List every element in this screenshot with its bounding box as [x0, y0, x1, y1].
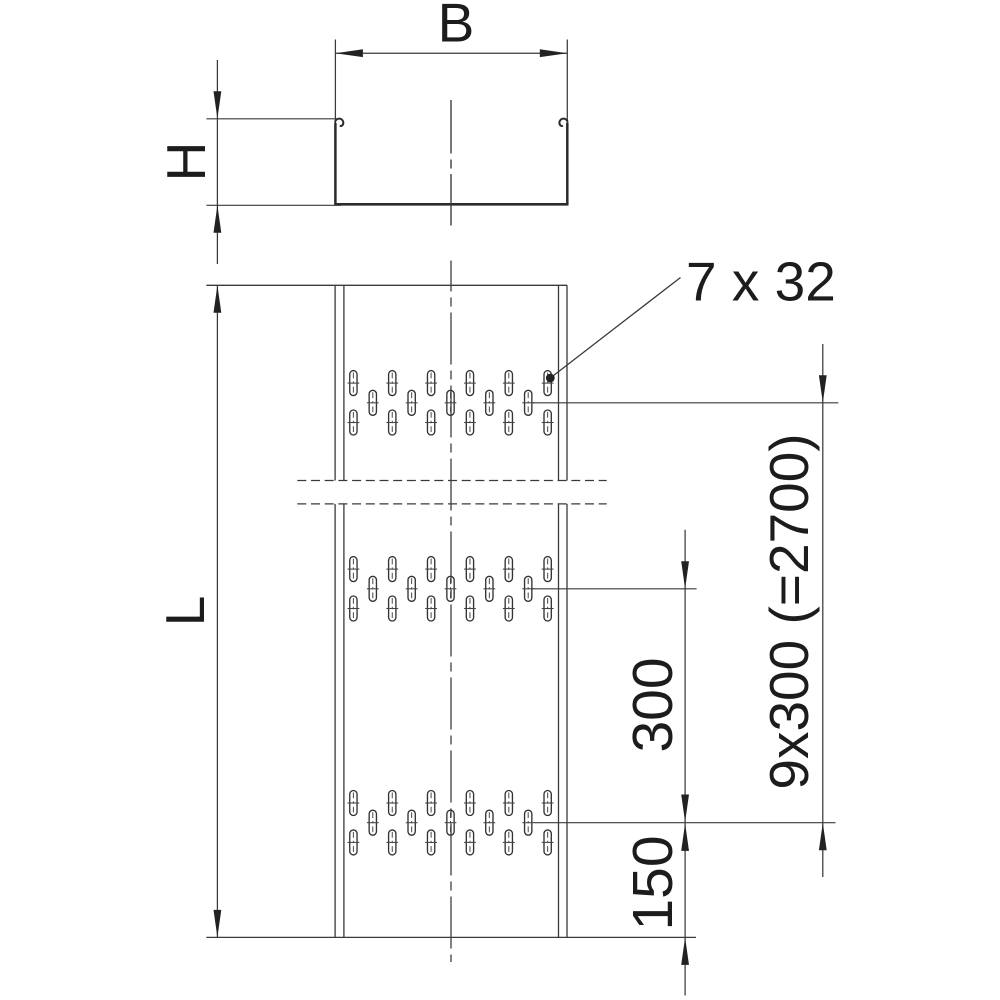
svg-text:9x300 (=2700): 9x300 (=2700) — [758, 433, 820, 789]
svg-text:150: 150 — [621, 835, 685, 930]
svg-text:L: L — [154, 596, 216, 627]
svg-text:7 x 32: 7 x 32 — [686, 250, 836, 312]
svg-text:H: H — [155, 142, 217, 182]
svg-text:B: B — [438, 0, 475, 54]
svg-text:300: 300 — [621, 657, 685, 752]
